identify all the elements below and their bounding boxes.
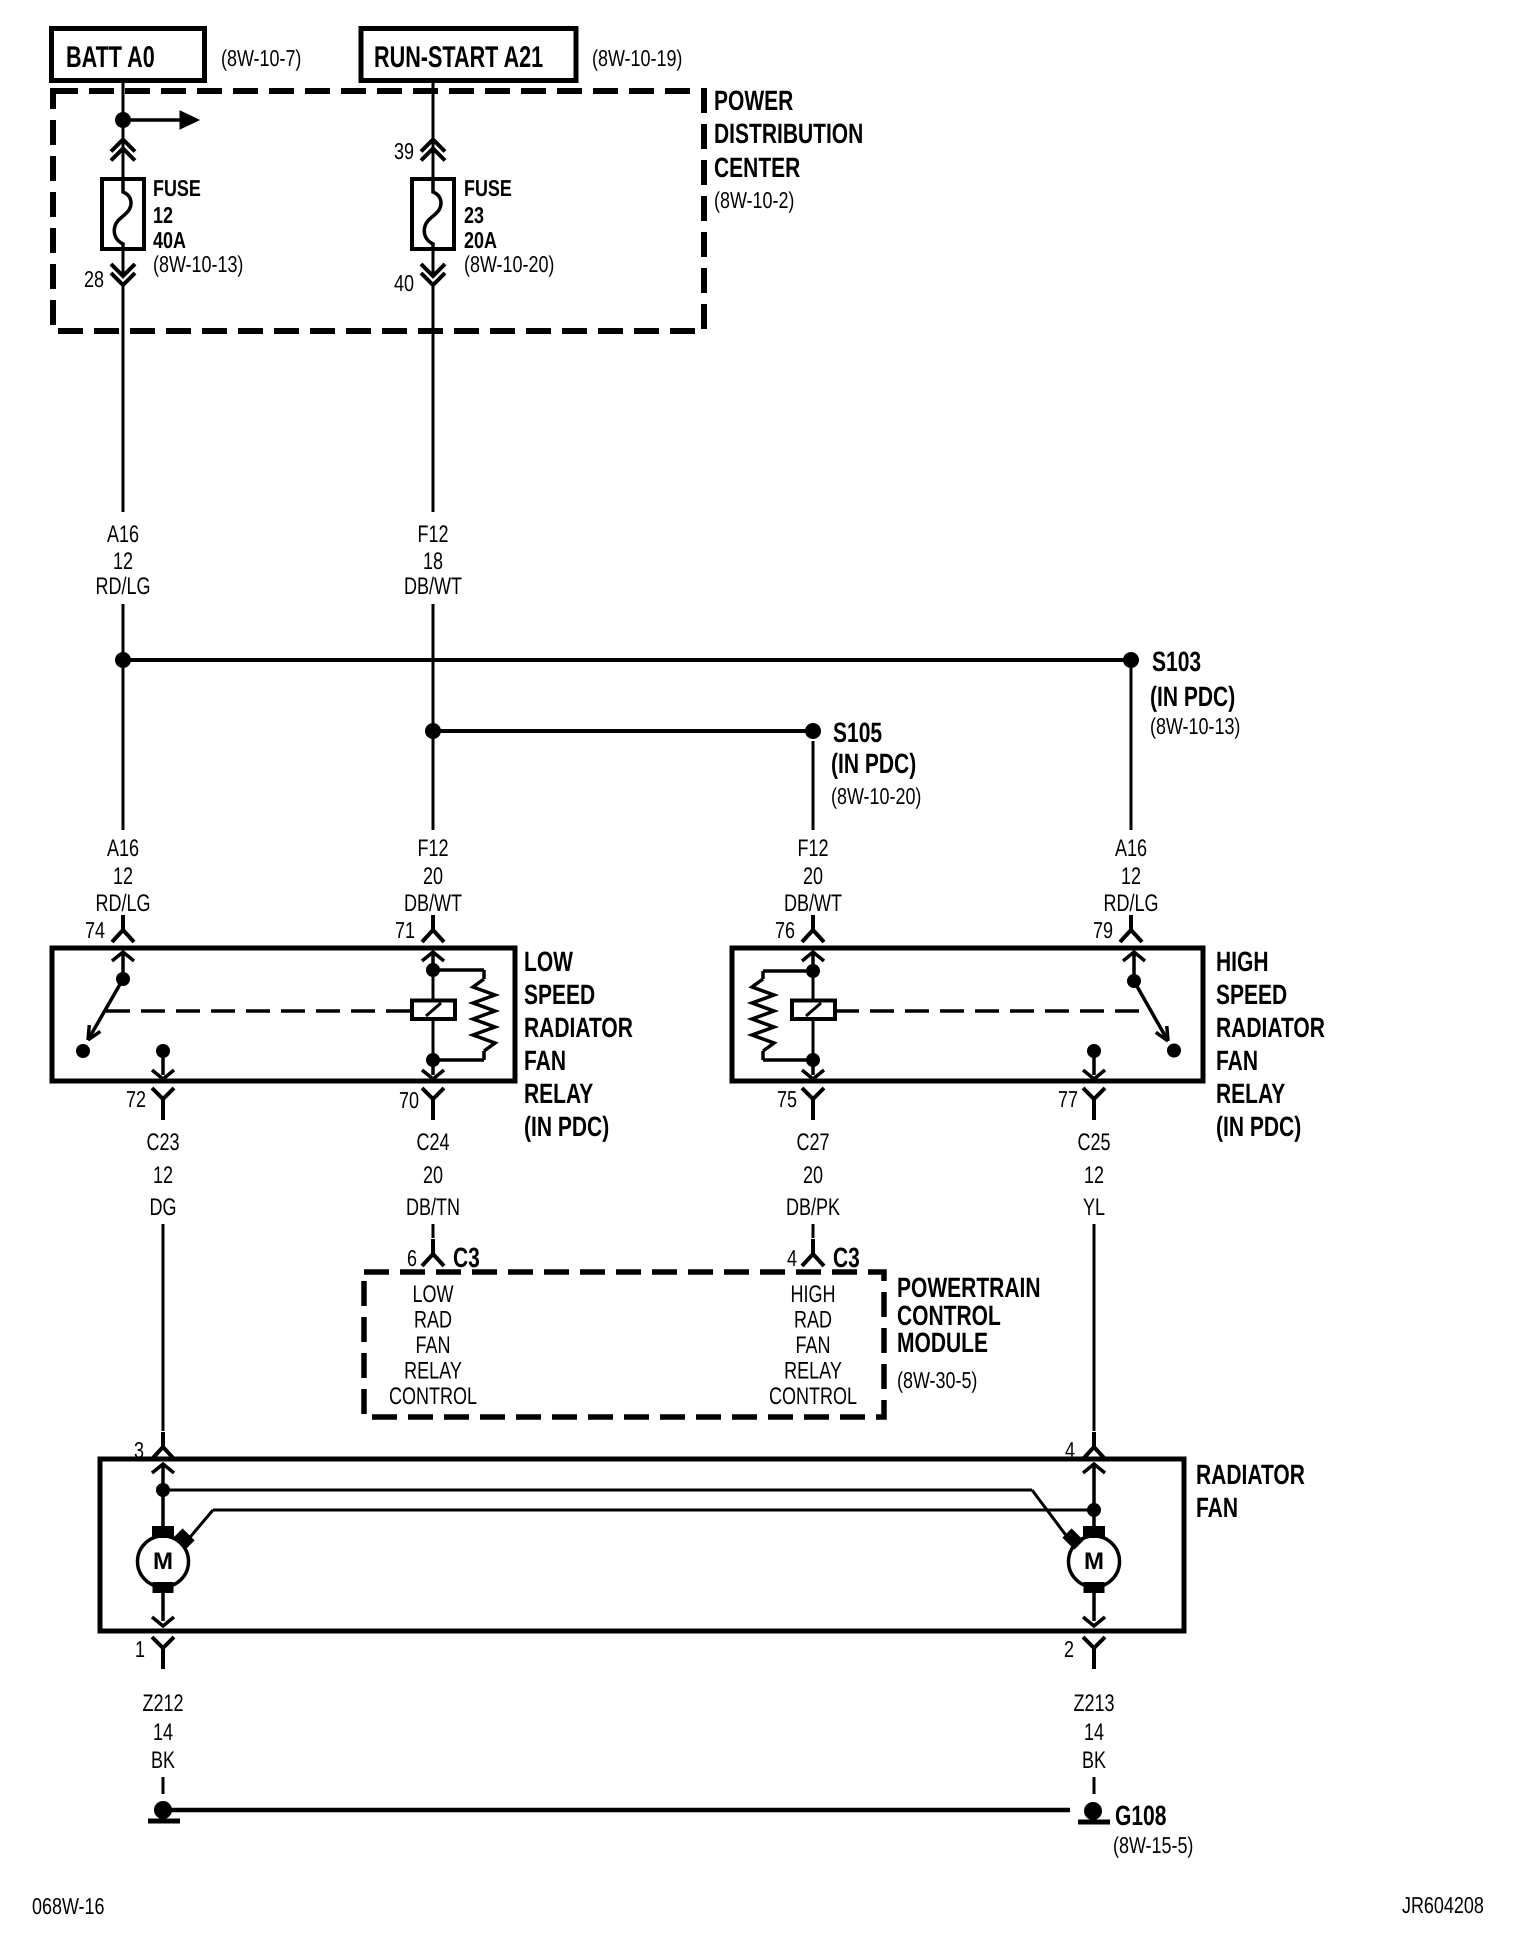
- svg-text:RAD: RAD: [414, 1307, 452, 1334]
- svg-text:6: 6: [407, 1245, 417, 1271]
- svg-text:S103: S103: [1152, 646, 1201, 677]
- svg-text:CENTER: CENTER: [714, 152, 800, 183]
- svg-text:12: 12: [153, 1162, 173, 1189]
- svg-text:(IN PDC): (IN PDC): [831, 748, 916, 779]
- svg-text:DB/TN: DB/TN: [406, 1194, 460, 1221]
- svg-text:FAN: FAN: [1196, 1492, 1238, 1523]
- svg-text:LOW: LOW: [524, 946, 573, 977]
- svg-text:12: 12: [1084, 1162, 1104, 1189]
- svg-text:70: 70: [399, 1087, 419, 1113]
- svg-text:POWER: POWER: [714, 85, 793, 116]
- svg-text:20: 20: [803, 1162, 823, 1189]
- svg-text:Z212: Z212: [143, 1690, 184, 1717]
- svg-text:F12: F12: [798, 835, 829, 862]
- svg-text:(8W-10-20): (8W-10-20): [464, 251, 554, 277]
- svg-text:20: 20: [423, 863, 443, 890]
- svg-text:CONTROL: CONTROL: [769, 1383, 857, 1410]
- svg-text:BATT A0: BATT A0: [66, 41, 155, 74]
- svg-text:(8W-10-19): (8W-10-19): [592, 45, 682, 71]
- svg-text:F12: F12: [418, 521, 449, 548]
- svg-text:RELAY: RELAY: [524, 1078, 593, 1109]
- svg-text:1: 1: [135, 1636, 145, 1662]
- svg-text:RD/LG: RD/LG: [96, 890, 151, 917]
- svg-text:(8W-15-5): (8W-15-5): [1113, 1832, 1193, 1858]
- svg-text:2: 2: [1064, 1636, 1074, 1662]
- svg-text:A16: A16: [1115, 835, 1147, 862]
- svg-text:FAN: FAN: [1216, 1045, 1258, 1076]
- svg-text:12: 12: [1121, 863, 1141, 890]
- svg-text:(IN PDC): (IN PDC): [524, 1111, 609, 1142]
- svg-text:12: 12: [113, 863, 133, 890]
- svg-text:76: 76: [775, 917, 795, 943]
- svg-text:BK: BK: [151, 1747, 175, 1774]
- svg-text:C3: C3: [453, 1242, 480, 1273]
- svg-text:20: 20: [423, 1162, 443, 1189]
- svg-text:RELAY: RELAY: [784, 1358, 842, 1385]
- svg-text:CONTROL: CONTROL: [389, 1383, 477, 1410]
- svg-text:BK: BK: [1082, 1747, 1106, 1774]
- svg-text:DG: DG: [150, 1194, 177, 1221]
- svg-text:77: 77: [1058, 1086, 1078, 1112]
- svg-text:(8W-10-13): (8W-10-13): [153, 251, 243, 277]
- svg-text:23: 23: [464, 202, 484, 228]
- svg-text:FAN: FAN: [416, 1332, 451, 1359]
- svg-text:(8W-10-7): (8W-10-7): [221, 45, 301, 71]
- svg-text:RELAY: RELAY: [404, 1358, 462, 1385]
- svg-text:HIGH: HIGH: [1216, 946, 1269, 977]
- svg-text:A16: A16: [107, 835, 139, 862]
- svg-text:71: 71: [395, 917, 415, 943]
- svg-text:068W-16: 068W-16: [32, 1893, 105, 1919]
- svg-text:SPEED: SPEED: [1216, 979, 1287, 1010]
- svg-text:RADIATOR: RADIATOR: [1196, 1459, 1305, 1490]
- svg-text:G108: G108: [1115, 1800, 1166, 1831]
- svg-text:RUN-START A21: RUN-START A21: [374, 41, 543, 74]
- svg-text:20A: 20A: [464, 227, 497, 253]
- svg-text:YL: YL: [1083, 1194, 1105, 1221]
- svg-text:40: 40: [394, 270, 414, 296]
- svg-text:M: M: [153, 1548, 173, 1575]
- svg-text:Z213: Z213: [1074, 1690, 1115, 1717]
- svg-text:74: 74: [85, 917, 105, 943]
- svg-text:FAN: FAN: [796, 1332, 831, 1359]
- svg-text:DB/WT: DB/WT: [404, 890, 462, 917]
- svg-text:39: 39: [394, 138, 414, 164]
- svg-text:MODULE: MODULE: [897, 1327, 988, 1358]
- svg-text:HIGH: HIGH: [791, 1281, 836, 1308]
- svg-text:(8W-10-13): (8W-10-13): [1150, 713, 1240, 739]
- svg-text:F12: F12: [418, 835, 449, 862]
- svg-text:DB/PK: DB/PK: [786, 1194, 840, 1221]
- svg-text:FUSE: FUSE: [464, 175, 512, 201]
- svg-text:LOW: LOW: [413, 1281, 454, 1308]
- svg-text:72: 72: [126, 1086, 146, 1112]
- svg-text:A16: A16: [107, 521, 139, 548]
- svg-text:79: 79: [1093, 917, 1113, 943]
- svg-text:RD/LG: RD/LG: [1104, 890, 1159, 917]
- svg-text:12: 12: [113, 548, 133, 575]
- svg-text:FUSE: FUSE: [153, 175, 201, 201]
- svg-text:DISTRIBUTION: DISTRIBUTION: [714, 118, 863, 149]
- svg-text:RD/LG: RD/LG: [96, 573, 151, 600]
- svg-text:DB/WT: DB/WT: [404, 573, 462, 600]
- svg-text:28: 28: [84, 266, 104, 292]
- svg-text:14: 14: [1084, 1719, 1104, 1746]
- svg-text:C27: C27: [797, 1129, 830, 1156]
- svg-text:14: 14: [153, 1719, 173, 1746]
- svg-text:RADIATOR: RADIATOR: [1216, 1012, 1325, 1043]
- svg-text:RELAY: RELAY: [1216, 1078, 1285, 1109]
- svg-text:20: 20: [803, 863, 823, 890]
- svg-text:DB/WT: DB/WT: [784, 890, 842, 917]
- svg-text:S105: S105: [833, 717, 882, 748]
- svg-text:(IN PDC): (IN PDC): [1216, 1111, 1301, 1142]
- svg-text:(IN PDC): (IN PDC): [1150, 681, 1235, 712]
- svg-text:RAD: RAD: [794, 1307, 832, 1334]
- svg-text:C3: C3: [833, 1242, 860, 1273]
- svg-text:RADIATOR: RADIATOR: [524, 1012, 633, 1043]
- svg-text:(8W-10-2): (8W-10-2): [714, 187, 794, 213]
- svg-text:POWERTRAIN: POWERTRAIN: [897, 1272, 1041, 1303]
- svg-text:SPEED: SPEED: [524, 979, 595, 1010]
- svg-text:(8W-10-20): (8W-10-20): [831, 783, 921, 809]
- svg-text:40A: 40A: [153, 227, 186, 253]
- svg-text:4: 4: [787, 1245, 797, 1271]
- svg-text:C24: C24: [417, 1129, 450, 1156]
- svg-text:FAN: FAN: [524, 1045, 566, 1076]
- svg-text:12: 12: [153, 202, 173, 228]
- svg-text:75: 75: [777, 1086, 797, 1112]
- svg-text:C23: C23: [147, 1129, 180, 1156]
- svg-text:18: 18: [423, 548, 443, 575]
- svg-text:JR604208: JR604208: [1402, 1892, 1484, 1918]
- svg-text:(8W-30-5): (8W-30-5): [897, 1367, 977, 1393]
- svg-text:C25: C25: [1078, 1129, 1111, 1156]
- svg-text:M: M: [1084, 1548, 1104, 1575]
